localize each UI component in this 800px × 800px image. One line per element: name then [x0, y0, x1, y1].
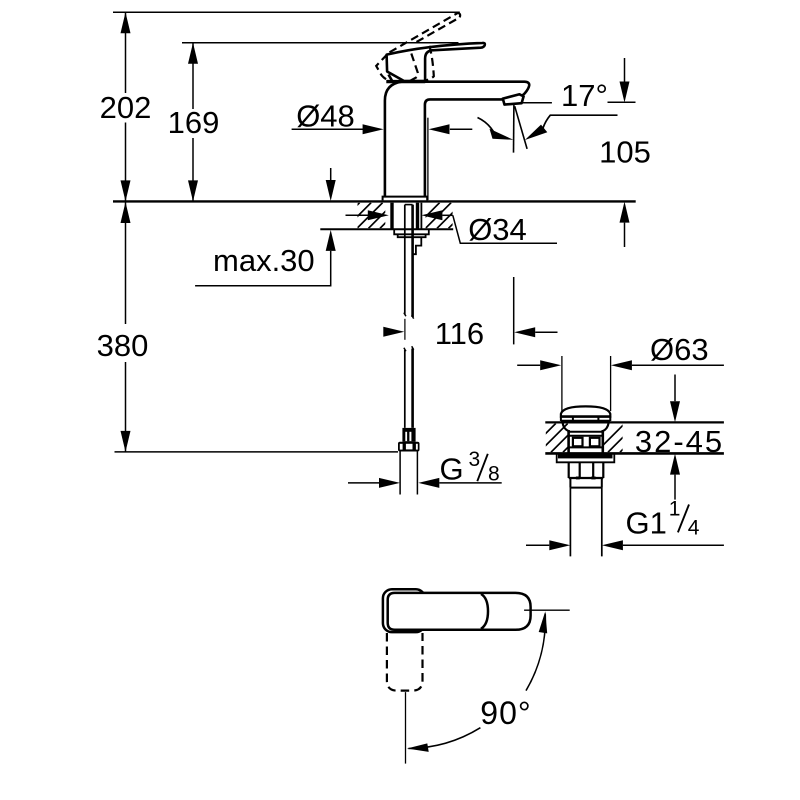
drain deck top line [545, 421, 724, 423]
17 degree leader right [608, 101, 636, 103]
dimension G3/8 [348, 482, 379, 484]
handle raised position (dashed) neck outer edge [424, 46, 434, 81]
handle base band [386, 80, 425, 83]
dimension G1 1/4 [526, 544, 549, 546]
handle cap outline [383, 589, 425, 632]
202 reference line top [113, 11, 460, 13]
deck top line [113, 200, 636, 202]
faucet body outline [385, 82, 529, 197]
supply pipe lower left [404, 350, 406, 428]
overflow window right [590, 438, 600, 447]
mounting washer [394, 229, 429, 234]
pipe break jog right [412, 315, 414, 318]
water stream 17 degree line [515, 106, 527, 149]
handle raised position (dashed) lever tip [458, 13, 460, 18]
base plinth [383, 197, 428, 201]
svg-text:3: 3 [469, 448, 481, 471]
svg-text:1: 1 [669, 498, 681, 521]
dome rim [561, 415, 610, 418]
deck bottom line [320, 228, 453, 230]
svg-text:32-45: 32-45 [635, 424, 724, 459]
169 reference line [182, 42, 459, 44]
dimension 380 line [125, 203, 127, 452]
svg-text:105: 105 [599, 134, 651, 169]
water stream vertical line [513, 104, 515, 153]
mounting nut [398, 234, 426, 237]
handle (solid, lever horizontal) [387, 43, 485, 81]
svg-text:G: G [440, 452, 464, 487]
supply pipe top cap [405, 204, 413, 206]
connection tube left [399, 452, 401, 495]
380 reference line bottom [115, 451, 399, 453]
drain deck bottom line [545, 452, 724, 455]
quick fastening steps [413, 237, 421, 254]
svg-text:Ø34: Ø34 [468, 212, 527, 247]
svg-text:G1: G1 [626, 506, 667, 541]
spout underside [425, 99, 503, 196]
pipe break centerline [404, 319, 406, 340]
dimension 202 line [125, 12, 127, 200]
connection tube right [416, 452, 418, 495]
svg-text:17°: 17° [561, 78, 608, 113]
svg-text:202: 202 [100, 90, 152, 125]
handle raised position (dashed) lever lower line [417, 17, 460, 42]
dimension D34 [346, 214, 369, 216]
dimension D63 [562, 356, 611, 413]
drain washer [557, 454, 615, 463]
threaded shank left edge [390, 203, 393, 230]
overflow window left [573, 438, 583, 447]
svg-text:169: 169 [168, 105, 220, 140]
compression ferrule [402, 428, 415, 442]
handle raised position (dashed) body right edge [407, 54, 418, 83]
supply pipe upper left [404, 205, 406, 315]
pipe lower jog left [404, 348, 406, 352]
116 extension line [513, 277, 515, 344]
angle arc left [478, 118, 496, 136]
D48 extension line [427, 118, 429, 200]
svg-text:380: 380 [97, 328, 149, 363]
drain body internal lines [569, 432, 603, 448]
drain neck flare [563, 423, 609, 432]
handle raised position (dashed) lever upper line [390, 13, 458, 52]
lever rotated 90 (dashed) [387, 633, 423, 691]
D34 leader [453, 215, 557, 243]
svg-text:4: 4 [688, 516, 700, 539]
90 degree arc [526, 614, 545, 691]
dimension 116 [383, 327, 404, 337]
threaded shank right edge [416, 203, 419, 230]
svg-text:max.30: max.30 [213, 243, 315, 278]
dash fragment near pivot [389, 75, 394, 83]
svg-text:Ø48: Ø48 [296, 98, 355, 133]
drain body sides [569, 430, 603, 453]
pipe break jog left [404, 313, 406, 317]
drain locknut [569, 462, 604, 478]
shank thread line [420, 203, 422, 230]
dimension 169 line [192, 43, 194, 201]
supply pipe upper right [411, 205, 414, 317]
drain ring [570, 478, 601, 488]
svg-text:8: 8 [488, 462, 500, 485]
handle raised position (dashed) body left edge [376, 54, 389, 80]
extension line right [524, 609, 570, 611]
drain tailpipe [570, 488, 601, 557]
dimension max.30 [330, 168, 332, 181]
drain dome cap [561, 406, 610, 416]
dimension 32-45 [674, 375, 676, 402]
pipe lower jog right [412, 346, 414, 350]
lever top view [388, 593, 531, 630]
centerline below [405, 692, 407, 764]
faucet body fill [385, 82, 529, 197]
aerator [503, 94, 524, 104]
dimension D48 [292, 128, 365, 130]
dimension 105 [624, 58, 626, 82]
svg-text:90°: 90° [480, 695, 531, 731]
svg-text:116: 116 [435, 316, 484, 351]
lever grip divider [481, 594, 488, 629]
17 degree leader left [522, 102, 552, 104]
svg-text:Ø63: Ø63 [650, 332, 709, 367]
angle arc right with leader [543, 115, 618, 129]
G3/8 nut [398, 442, 420, 452]
supply pipe lower right [411, 349, 414, 428]
